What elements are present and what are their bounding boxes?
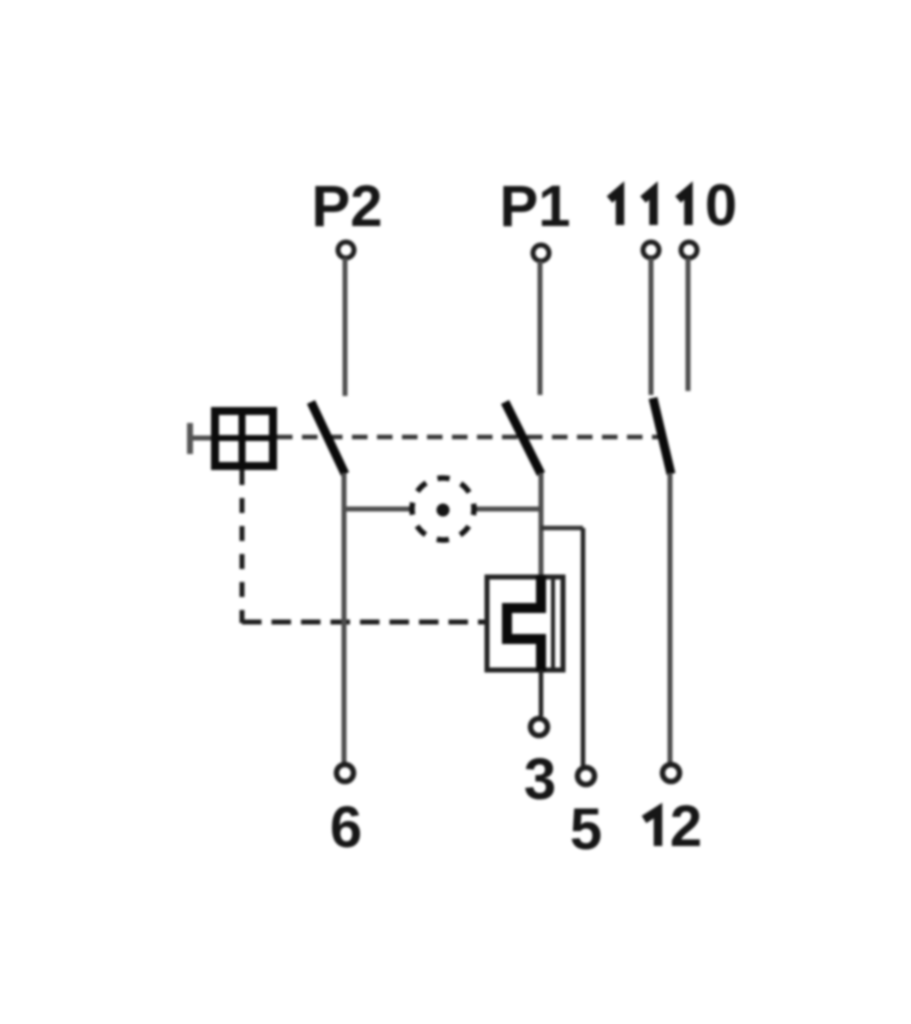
indicator center dot — [437, 504, 450, 517]
actuator left stub line — [190, 436, 211, 441]
svg-text:3: 3 — [524, 747, 556, 812]
wire lamp line left segment — [344, 507, 412, 512]
terminal 12 — [663, 765, 680, 782]
svg-text:0: 0 — [705, 173, 737, 238]
terminal 6 — [337, 765, 354, 782]
wire below 11-12 switch to terminal 12 — [668, 473, 673, 764]
thermal element box — [487, 577, 563, 670]
svg-text:5: 5 — [570, 797, 602, 862]
wire from terminal P2 down — [343, 258, 348, 396]
label 12 — [644, 794, 702, 859]
thermal element inner right line — [551, 579, 555, 668]
svg-text:P1: P1 — [500, 174, 571, 239]
wire below thermal element to terminal 3 — [539, 670, 544, 716]
dashed link to thermal element — [242, 620, 485, 625]
svg-text:6: 6 — [330, 795, 362, 860]
manual actuator box with cross — [215, 411, 273, 466]
wire branch to terminal 5 (vertical) — [581, 528, 586, 766]
wire lamp line right segment — [474, 507, 541, 512]
switch contact blade 11-12 — [653, 398, 671, 474]
switch contact blade P2-6 — [311, 402, 345, 474]
mechanical link dashed line — [277, 435, 665, 440]
terminal 11 — [643, 242, 659, 258]
svg-text:P2: P2 — [312, 174, 383, 239]
terminal P1 — [533, 245, 549, 261]
dashed link from box down — [240, 470, 245, 623]
thermal element step (bimetal) — [507, 575, 541, 672]
wire from terminal 11 down — [649, 258, 654, 395]
indicator dashed circle — [412, 478, 474, 540]
terminal 3 — [531, 719, 548, 736]
label 10 — [678, 173, 737, 238]
wire below P2 switch to terminal 6 — [342, 473, 347, 764]
wire branch to terminal 5 (horizontal) — [541, 526, 583, 531]
svg-text:2: 2 — [670, 794, 702, 859]
switch contact blade P1-3 — [505, 402, 541, 474]
terminal 5 — [578, 768, 595, 785]
wire from terminal P1 down — [538, 261, 543, 395]
terminal 10 — [681, 242, 697, 258]
actuator end tick — [187, 423, 193, 454]
wire from terminal 10 down (unconnected) — [686, 258, 691, 391]
label 11 — [610, 191, 654, 226]
wire below P1 switch — [539, 473, 544, 577]
terminal P2 — [338, 242, 354, 258]
